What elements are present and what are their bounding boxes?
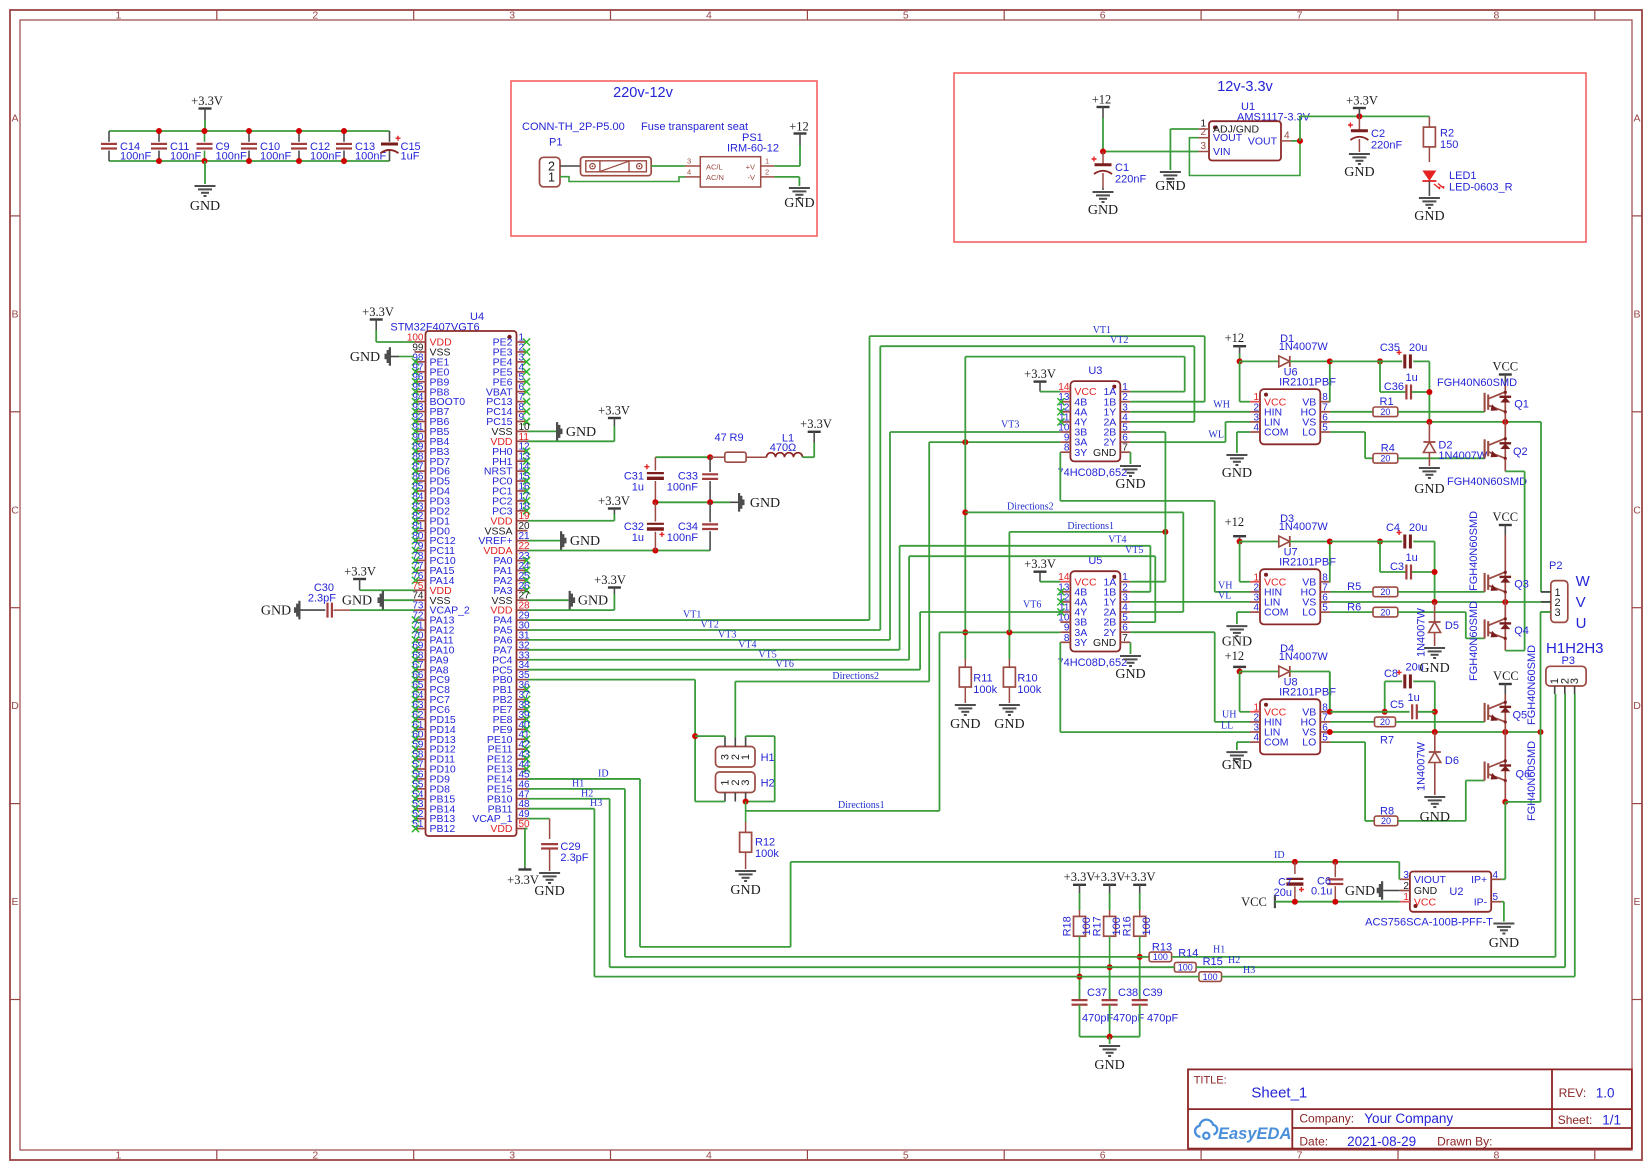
pin U5.8 3Y xyxy=(1060,641,1070,643)
svg-text:1: 1 xyxy=(548,171,555,185)
inductor L1 470 xyxy=(767,453,803,458)
pin U3.10 3B xyxy=(1060,431,1070,433)
svg-text:1: 1 xyxy=(1403,892,1409,903)
svg-text:C38: C38 xyxy=(1118,987,1138,999)
pin U4.55 PD8 xyxy=(415,788,426,790)
svg-text:PB12: PB12 xyxy=(430,823,456,835)
svg-text:+3.3V: +3.3V xyxy=(344,565,376,579)
pin U7.8 VB xyxy=(1320,581,1330,583)
pin P3.2 xyxy=(1564,686,1566,694)
pin U5.5 2B xyxy=(1120,621,1130,623)
pin U4.78 PC10 xyxy=(415,559,426,561)
pin U5.13 4B xyxy=(1060,591,1070,593)
svg-text:+3.3V: +3.3V xyxy=(594,573,626,587)
svg-text:100nF: 100nF xyxy=(310,151,341,163)
ground GND (U4 pin99 VSS) xyxy=(399,356,414,358)
svg-text:6: 6 xyxy=(1100,10,1106,22)
svg-text:GND: GND xyxy=(190,199,220,214)
svg-text:+12: +12 xyxy=(1225,331,1245,345)
module box 12v-3.3v xyxy=(954,73,1586,242)
pin U4.56 PD9 xyxy=(415,778,426,780)
ground GND (U2 IP-) xyxy=(1501,901,1504,903)
ground GND (R11) xyxy=(955,705,976,715)
wire R5 to Q3 gate xyxy=(1398,591,1485,593)
svg-text:Directions1: Directions1 xyxy=(1067,521,1114,532)
svg-text:100k: 100k xyxy=(1017,684,1041,696)
pin U4.69 PA10 xyxy=(415,649,426,651)
svg-text:IR2101PBF: IR2101PBF xyxy=(1279,557,1336,569)
wire D to VB riser xyxy=(1290,541,1330,543)
svg-text:ACS756SCA-100B-PFF-T: ACS756SCA-100B-PFF-T xyxy=(1365,916,1493,928)
resistor R16 100 xyxy=(1133,884,1146,886)
net LL xyxy=(1059,642,1061,732)
current sensor U2 ACS756SCA xyxy=(1410,872,1491,912)
resistor R8 20 xyxy=(1330,741,1365,743)
svg-text:IP+: IP+ xyxy=(1471,874,1487,886)
svg-text:+3.3V: +3.3V xyxy=(1094,870,1126,884)
svg-text:2: 2 xyxy=(1403,881,1409,892)
ground GND (U4 pin10 VSS) xyxy=(528,430,557,432)
resistor R12 100k xyxy=(745,802,747,823)
wire VOUT pin4 to +3.3V rail xyxy=(1292,140,1301,142)
svg-text:R2: R2 xyxy=(1440,128,1454,140)
pin U6.1 VCC xyxy=(1250,401,1260,403)
svg-text:4: 4 xyxy=(1253,423,1259,434)
wire P1 pin2 to F1 xyxy=(560,165,581,167)
pin U8.1 VCC xyxy=(1250,711,1260,713)
svg-text:220v-12v: 220v-12v xyxy=(613,85,673,101)
diode D2 1N4007W xyxy=(1428,422,1430,442)
svg-text:R13: R13 xyxy=(1152,941,1172,953)
pin U4.89 PB3 xyxy=(415,450,426,452)
svg-text:+12: +12 xyxy=(1225,649,1245,663)
resistor R10 100k xyxy=(1008,632,1010,659)
pin U4.10 VSS xyxy=(517,430,528,432)
svg-text:ID: ID xyxy=(1274,850,1285,861)
svg-text:GND: GND xyxy=(1222,466,1252,481)
pin U4.54 PB15 xyxy=(415,798,426,800)
svg-text:2021-08-29: 2021-08-29 xyxy=(1347,1134,1416,1149)
wire P2 pin3 to U phase xyxy=(1541,611,1551,613)
pin U8.7 HO xyxy=(1320,721,1330,723)
wire R4 to Q2 gate xyxy=(1398,457,1485,459)
pin U4.37 PB2 xyxy=(517,698,528,700)
svg-text:+3.3V: +3.3V xyxy=(1024,367,1056,381)
svg-text:Q1: Q1 xyxy=(1514,399,1529,411)
svg-text:IR2101PBF: IR2101PBF xyxy=(1279,687,1336,699)
diode D5 1N4007W xyxy=(1434,602,1436,622)
pin U4.73 VCAP_2 xyxy=(415,609,426,611)
pin U4.97 PE0 xyxy=(415,371,426,373)
svg-text:100: 100 xyxy=(1141,917,1153,935)
svg-text:R9: R9 xyxy=(730,432,744,444)
pin U7.1 VCC xyxy=(1250,581,1260,583)
svg-text:U3: U3 xyxy=(1088,365,1102,377)
svg-text:+3.3V: +3.3V xyxy=(507,873,539,887)
svg-text:VT2: VT2 xyxy=(701,619,719,630)
capacitor C6 0.1u xyxy=(1334,862,1336,877)
svg-text:GND: GND xyxy=(534,884,564,899)
svg-text:VT4: VT4 xyxy=(738,639,756,650)
pin U6.3 LIN xyxy=(1250,421,1260,423)
svg-text:FGH40N60SMD: FGH40N60SMD xyxy=(1526,741,1538,821)
svg-text:R4: R4 xyxy=(1381,442,1395,454)
svg-text:100nF: 100nF xyxy=(667,532,698,544)
svg-text:VT1: VT1 xyxy=(683,610,701,621)
svg-text:1N4007W: 1N4007W xyxy=(1279,521,1329,533)
svg-text:VIN: VIN xyxy=(1213,146,1231,158)
resistor R17 100 xyxy=(1103,884,1116,886)
net VT6 xyxy=(528,669,921,671)
svg-text:GND: GND xyxy=(1344,165,1374,180)
pin U4.4 PE5 xyxy=(517,371,528,373)
svg-text:CONN-TH_2P-P5.00: CONN-TH_2P-P5.00 xyxy=(522,121,625,133)
ground GND (D6) xyxy=(1424,797,1445,807)
capacitor C15 xyxy=(389,131,391,142)
ground GND (LED1) xyxy=(1428,181,1430,196)
svg-text:GND: GND xyxy=(1115,477,1145,492)
ground GND (U7 COM) xyxy=(1237,611,1250,613)
svg-text:VT6: VT6 xyxy=(776,659,794,670)
net VT3 xyxy=(528,639,891,641)
capacitor C33 xyxy=(709,457,711,472)
pin U4.95 PB8 xyxy=(415,391,426,393)
svg-text:+3.3V: +3.3V xyxy=(362,305,394,319)
svg-text:R8: R8 xyxy=(1380,805,1394,817)
svg-text:470pF: 470pF xyxy=(1147,1013,1178,1025)
wire ADJ/GND to ground xyxy=(1170,128,1198,130)
wire D to VB riser xyxy=(1290,360,1330,362)
pin U3.8 3Y xyxy=(1060,451,1070,453)
svg-text:C39: C39 xyxy=(1143,987,1163,999)
svg-text:1: 1 xyxy=(116,10,122,22)
pin U8.8 VB xyxy=(1320,711,1330,713)
pin U5.12 4A xyxy=(1060,601,1070,603)
svg-text:5: 5 xyxy=(1322,603,1328,614)
net WH xyxy=(1131,411,1251,413)
pin U4.9 PC15 xyxy=(517,420,528,422)
pin U4.77 PA15 xyxy=(415,569,426,571)
pin U4.91 PB5 xyxy=(415,430,426,432)
pin U4.85 PD4 xyxy=(415,490,426,492)
pin U7.2 HIN xyxy=(1250,591,1260,593)
pin U3.3 1Y xyxy=(1120,411,1130,413)
svg-text:Q3: Q3 xyxy=(1514,579,1529,591)
pin U4.3 PE4 xyxy=(517,361,528,363)
svg-text:5: 5 xyxy=(903,10,909,22)
svg-text:4: 4 xyxy=(1253,733,1259,744)
connector H1 xyxy=(716,747,756,768)
svg-text:COM: COM xyxy=(1264,607,1289,619)
svg-text:GND: GND xyxy=(750,496,780,511)
svg-text:+12: +12 xyxy=(789,120,809,134)
connector H2 xyxy=(716,772,756,793)
svg-text:100k: 100k xyxy=(755,848,779,860)
ground GND (D5) xyxy=(1424,648,1445,658)
wire VS U-phase xyxy=(1330,731,1540,733)
svg-text:3: 3 xyxy=(509,1150,515,1162)
ground GND (psu) xyxy=(774,176,799,178)
svg-text:+3.3V: +3.3V xyxy=(1124,870,1156,884)
svg-text:VT5: VT5 xyxy=(1125,545,1143,556)
pin U4.43 PE12 xyxy=(517,758,528,760)
svg-text:1: 1 xyxy=(740,754,752,760)
svg-text:GND: GND xyxy=(570,534,600,549)
svg-text:GND: GND xyxy=(1414,885,1438,897)
pin U4.93 PB7 xyxy=(415,411,426,413)
wire Q4 emitter xyxy=(1504,639,1506,651)
ground GND (U6 COM) xyxy=(1237,431,1250,433)
resistor R5 20 xyxy=(1330,591,1373,593)
capacitor C37 470pF xyxy=(1079,977,1081,1000)
connector P1 xyxy=(540,157,561,187)
pin U4.68 PA9 xyxy=(415,659,426,661)
ground GND (C29) xyxy=(539,873,560,883)
pin U4.58 PD11 xyxy=(415,758,426,760)
wire VS V-phase to P2 pin2 xyxy=(1330,601,1550,603)
svg-text:Directions2: Directions2 xyxy=(1007,501,1054,512)
svg-text:R15: R15 xyxy=(1203,956,1223,968)
svg-text:R11: R11 xyxy=(973,673,992,685)
svg-text:8: 8 xyxy=(1064,443,1070,454)
svg-text:4: 4 xyxy=(1493,870,1499,881)
wire VB riser (U6) xyxy=(1329,361,1331,401)
svg-text:VCC: VCC xyxy=(1492,510,1518,524)
pin U3.6 2Y xyxy=(1120,441,1130,443)
pin U4.100 VDD xyxy=(415,341,426,343)
ground GND (U4 pin74 VSS) xyxy=(384,599,415,601)
pin U5.2 1B xyxy=(1120,591,1130,593)
svg-text:C36: C36 xyxy=(1384,381,1404,393)
svg-text:VCC: VCC xyxy=(1493,669,1519,683)
pin U4.7 PC13 xyxy=(517,401,528,403)
svg-text:LO: LO xyxy=(1302,737,1316,749)
svg-text:H1: H1 xyxy=(1213,945,1225,956)
ground GND (D2) xyxy=(1419,468,1440,478)
pin PS1-1 xyxy=(761,165,775,167)
wire H1 line right xyxy=(1172,956,1556,958)
svg-text:H2: H2 xyxy=(1228,955,1240,966)
svg-text:100nF: 100nF xyxy=(216,151,247,163)
svg-text:WL: WL xyxy=(1208,430,1224,441)
power module PS1 IRM-60-12 xyxy=(700,157,760,187)
svg-text:GND: GND xyxy=(1222,758,1252,773)
pin U8.6 VS xyxy=(1320,731,1330,733)
svg-text:1N4007W: 1N4007W xyxy=(1438,450,1488,462)
capacitor C12 xyxy=(298,131,300,142)
wire Q6 emitter to sensor xyxy=(1504,781,1506,802)
ground GND (R12) xyxy=(735,871,756,881)
svg-text:GND: GND xyxy=(730,883,760,898)
svg-text:+12: +12 xyxy=(1092,93,1112,107)
pin U8.2 HIN xyxy=(1250,721,1260,723)
net UH xyxy=(1131,631,1215,633)
pin H2.2 xyxy=(734,793,736,802)
wire VCC riser (U8) xyxy=(1239,672,1241,712)
pin U4.96 PB9 xyxy=(415,381,426,383)
svg-text:470Ω: 470Ω xyxy=(770,442,797,454)
wire VB riser (U8) xyxy=(1329,672,1331,712)
pin U4.53 PB14 xyxy=(415,808,426,810)
svg-text:P2: P2 xyxy=(1549,560,1562,572)
pin U4.31 PA6 xyxy=(517,639,528,641)
wire VB riser (U7) xyxy=(1329,542,1331,582)
ground GND (cap bank) xyxy=(204,161,206,184)
transistor Q4 FGH40N60SMD xyxy=(1504,602,1506,619)
wire H1 line left xyxy=(625,956,1140,958)
svg-text:2.3pF: 2.3pF xyxy=(560,852,588,864)
pin U4.51 PB12 xyxy=(415,828,426,830)
wire P1 pin1 loop to PS1 pin4 xyxy=(560,177,685,182)
wire mid rail to GND xyxy=(655,501,730,503)
capacitor C9 xyxy=(204,131,206,142)
pin U4.35 PB0 xyxy=(517,679,528,681)
svg-text:R10: R10 xyxy=(1017,673,1037,685)
ground GND (filter mid) xyxy=(730,501,738,503)
pin U8.5 LO xyxy=(1320,741,1330,743)
svg-text:1/1: 1/1 xyxy=(1602,1113,1621,1128)
svg-text:+12: +12 xyxy=(1225,515,1245,529)
resistor R15 100 xyxy=(1199,972,1222,982)
svg-text:GND: GND xyxy=(1414,482,1444,497)
resistor R18 100 xyxy=(1073,884,1086,886)
net Directions2 xyxy=(734,682,736,738)
pin U5.4 2A xyxy=(1120,611,1130,613)
svg-text:R12: R12 xyxy=(755,837,775,849)
svg-text:3Y: 3Y xyxy=(1074,637,1087,649)
pin U7.4 COM xyxy=(1250,611,1260,613)
svg-text:2: 2 xyxy=(312,10,318,22)
pin U4.86 PD5 xyxy=(415,480,426,482)
svg-text:3: 3 xyxy=(1555,607,1561,619)
svg-text:2: 2 xyxy=(312,1150,318,1162)
pin U4.45 PE14 xyxy=(517,778,528,780)
net VT4 xyxy=(528,649,900,651)
ground GND (R10) xyxy=(999,705,1020,715)
pin U4.76 PA14 xyxy=(415,579,426,581)
svg-text:VT1: VT1 xyxy=(1093,325,1111,336)
capacitor C2 xyxy=(1358,116,1360,129)
svg-text:D: D xyxy=(1633,700,1641,712)
pin U4.74 VSS xyxy=(415,599,426,601)
svg-text:51: 51 xyxy=(412,819,424,830)
pin U5.10 3B xyxy=(1060,621,1070,623)
svg-text:5: 5 xyxy=(903,1150,909,1162)
svg-text:1u: 1u xyxy=(1408,692,1420,704)
wire C37-39 bottom rail xyxy=(1080,1036,1140,1038)
ground GND (U4 pin21 VREF+) xyxy=(528,540,561,542)
pin U4.25 PA2 xyxy=(517,579,528,581)
capacitor C34 xyxy=(709,502,711,522)
net Directions1 xyxy=(746,810,940,812)
pin U4.6 VBAT xyxy=(517,391,528,393)
pin U4.28 VDD xyxy=(517,609,528,611)
svg-text:H3: H3 xyxy=(1243,965,1255,976)
svg-text:GND: GND xyxy=(1093,637,1117,649)
wire VDDA rail (U4 pin22) xyxy=(528,550,711,552)
svg-text:VOUT: VOUT xyxy=(1248,135,1278,147)
pin U4.39 PE8 xyxy=(517,718,528,720)
svg-text:ID: ID xyxy=(598,768,609,779)
pin U4.21 VREF+ xyxy=(517,540,528,542)
title block xyxy=(1188,1069,1632,1148)
svg-text:Sheet_1: Sheet_1 xyxy=(1251,1085,1307,1102)
svg-text:8: 8 xyxy=(1493,1150,1499,1162)
svg-text:GND: GND xyxy=(1414,209,1444,224)
svg-text:Sheet:: Sheet: xyxy=(1558,1113,1593,1127)
ground GND (U8 COM) xyxy=(1237,741,1250,743)
pin U4.70 PA11 xyxy=(415,639,426,641)
pin U3.7 GND xyxy=(1120,451,1130,453)
pin U3.2 1B xyxy=(1120,401,1130,403)
svg-text:GND: GND xyxy=(1419,661,1449,676)
svg-text:GND: GND xyxy=(1345,884,1375,899)
pin U4.62 PD15 xyxy=(415,718,426,720)
resistor R2 xyxy=(1428,116,1430,127)
svg-text:20: 20 xyxy=(1380,454,1390,464)
wire H1.1 to H2.3 loop xyxy=(745,736,747,737)
capacitor C14 xyxy=(108,131,110,142)
pin H1.3 xyxy=(724,738,726,747)
net ID wire to U2 xyxy=(791,861,1400,863)
svg-text:AC/N: AC/N xyxy=(706,173,724,182)
svg-text:4: 4 xyxy=(1284,130,1290,141)
svg-text:Q5: Q5 xyxy=(1513,710,1528,722)
svg-text:20: 20 xyxy=(1380,587,1390,597)
svg-text:IR2101PBF: IR2101PBF xyxy=(1279,377,1336,389)
wire H2 line right xyxy=(1110,966,1175,968)
pin U4.20 VSSA xyxy=(517,530,528,532)
pin U4.71 PA12 xyxy=(415,629,426,631)
wire VOUT pin2 loop xyxy=(1189,138,1300,176)
svg-text:H1: H1 xyxy=(761,752,775,764)
capacitor C30 (VCAP_2) xyxy=(350,609,415,611)
pin U8.3 LIN xyxy=(1250,731,1260,733)
svg-text:1.0: 1.0 xyxy=(1596,1086,1615,1101)
wire VCC riser (U6) xyxy=(1239,361,1241,401)
svg-text:LO: LO xyxy=(1302,607,1316,619)
svg-text:C: C xyxy=(11,504,19,516)
pin U4.8 PC14 xyxy=(517,411,528,413)
pin U4.60 PD13 xyxy=(415,738,426,740)
svg-text:20: 20 xyxy=(1380,607,1390,617)
pin U3.14 VCC xyxy=(1060,391,1070,393)
pin U6.2 HIN xyxy=(1250,411,1260,413)
wire H3 line left xyxy=(594,976,1079,978)
EasyEDA logo xyxy=(1195,1120,1217,1139)
fuse F1 xyxy=(581,157,652,176)
capacitor C13 xyxy=(343,131,345,142)
svg-text:A: A xyxy=(11,112,18,124)
pin U7.6 VS xyxy=(1320,601,1330,603)
svg-text:3: 3 xyxy=(687,157,691,166)
pin U4.61 PD14 xyxy=(415,728,426,730)
svg-text:3: 3 xyxy=(1569,678,1581,684)
net H2 (from PB10) xyxy=(528,798,610,800)
svg-text:1u: 1u xyxy=(632,482,644,494)
pin U5.11 4Y xyxy=(1060,611,1070,613)
svg-text:1: 1 xyxy=(765,157,769,166)
svg-text:D5: D5 xyxy=(1445,620,1459,632)
svg-text:C: C xyxy=(1633,504,1641,516)
svg-text:8: 8 xyxy=(1493,10,1499,22)
pin U4.2 PE3 xyxy=(517,351,528,353)
svg-text:C5: C5 xyxy=(1390,699,1404,711)
svg-text:+3.3V: +3.3V xyxy=(1346,94,1378,108)
capacitor C8 20u xyxy=(1384,681,1386,711)
pin U4.38 PE7 xyxy=(517,708,528,710)
svg-text:3: 3 xyxy=(509,10,515,22)
